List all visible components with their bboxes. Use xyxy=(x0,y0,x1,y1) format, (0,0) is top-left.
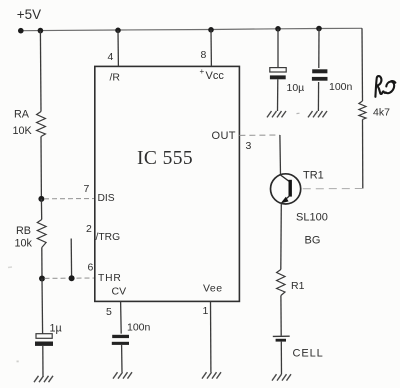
wire OUT drop to base xyxy=(279,135,282,175)
svg-text:/TRG: /TRG xyxy=(96,232,121,243)
pin Vee label xyxy=(203,283,223,295)
svg-text:DIS: DIS xyxy=(98,193,115,204)
svg-text:1: 1 xyxy=(203,305,209,317)
wire TRG stub vertical xyxy=(70,239,72,279)
wire branch down to 1u cap xyxy=(41,279,44,334)
pin 2 number xyxy=(86,223,92,235)
wire right rail down to 4k7 xyxy=(361,28,364,101)
pin 5 number xyxy=(106,306,112,318)
ground under 1u xyxy=(34,376,53,382)
scan speck near THR left xyxy=(17,361,19,363)
wire 10u to ground xyxy=(277,79,279,111)
svg-text:6: 6 xyxy=(88,262,94,274)
node junction dot TRG-THR xyxy=(69,275,75,281)
wire 4k7 down to collector xyxy=(362,120,364,189)
pin 1 number xyxy=(203,305,209,317)
wire collector horizontal xyxy=(301,188,363,190)
pin 6 number xyxy=(88,262,94,274)
wire top supply rail xyxy=(21,28,362,30)
pin THR label xyxy=(98,273,122,284)
svg-text:OUT: OUT xyxy=(212,130,236,142)
wire RB branch upper xyxy=(40,199,42,220)
node junction dot pin8 branch xyxy=(208,27,214,33)
wire RB to THR junction xyxy=(41,248,43,279)
capacitor 10u electrolytic xyxy=(270,68,304,94)
node junction dot 10u branch xyxy=(275,26,281,32)
label RD handwritten xyxy=(375,76,395,97)
ground under 10u xyxy=(267,111,286,117)
label SL100 xyxy=(296,212,328,224)
wire emitter down xyxy=(280,204,283,270)
svg-text:THR: THR xyxy=(98,273,122,284)
ground under pin1 xyxy=(202,372,221,378)
wire pin 8 xyxy=(210,30,212,67)
wire OUT dashed horizontal xyxy=(239,134,280,136)
svg-text:Vcc: Vcc xyxy=(206,70,225,82)
pin +Vcc label xyxy=(200,67,225,82)
svg-text:RB: RB xyxy=(16,225,31,237)
svg-text:RA: RA xyxy=(14,109,30,121)
svg-text:10µ: 10µ xyxy=(287,82,305,94)
wire R1 to cell xyxy=(280,296,282,336)
svg-text:2: 2 xyxy=(86,223,92,235)
svg-text:8: 8 xyxy=(201,49,207,61)
svg-text:100n: 100n xyxy=(127,322,151,334)
scan speck left margin xyxy=(8,266,12,269)
capacitor C1 1u xyxy=(35,323,62,346)
node +5V label xyxy=(17,7,41,22)
pin /R label xyxy=(110,72,121,84)
wire 100n to ground xyxy=(121,345,123,372)
node junction dot rail left end xyxy=(18,28,24,34)
pin 8 number xyxy=(201,49,207,61)
wire 100n to ground xyxy=(317,82,319,111)
ground under top 100n xyxy=(308,111,327,117)
pin CV label xyxy=(112,286,127,298)
svg-text:/R: /R xyxy=(110,72,121,84)
IC 555 label xyxy=(137,148,193,169)
svg-text:7: 7 xyxy=(84,183,90,195)
ground under cell xyxy=(272,374,291,380)
node junction dot pin4 branch xyxy=(115,28,121,34)
transistor TR1 xyxy=(271,174,301,204)
node junction dot THR-RB xyxy=(39,276,45,282)
wire THR line to pin6 xyxy=(45,277,96,279)
svg-text:10k: 10k xyxy=(15,238,33,250)
svg-text:+: + xyxy=(200,67,205,76)
wire 10u branch from rail xyxy=(277,29,279,68)
wire cell to ground xyxy=(280,342,282,375)
wire RA to DIS junction xyxy=(40,137,42,199)
capacitor 100n at CV xyxy=(112,322,151,345)
svg-text:10K: 10K xyxy=(13,125,33,137)
svg-text:CV: CV xyxy=(112,286,127,298)
svg-text:100n: 100n xyxy=(329,81,353,93)
capacitor 100n top right xyxy=(312,69,353,93)
node junction dot RA branch xyxy=(38,28,44,34)
wire pin 5 to 100n xyxy=(120,301,123,333)
svg-text:BG: BG xyxy=(305,235,321,247)
svg-text:SL100: SL100 xyxy=(296,212,328,224)
battery CELL xyxy=(273,336,324,359)
wire pin 4 xyxy=(117,30,119,66)
wire 1u to ground xyxy=(42,346,44,377)
label TR1 xyxy=(303,170,324,182)
svg-text:4k7: 4k7 xyxy=(373,107,390,119)
wire RA branch upper xyxy=(39,31,42,112)
wire pin 1 Vee to ground xyxy=(210,301,212,372)
svg-text:TR1: TR1 xyxy=(303,170,324,182)
resistor R1 xyxy=(277,270,305,296)
resistor RB xyxy=(15,220,47,250)
svg-text:4: 4 xyxy=(108,51,114,63)
ground under CV 100n xyxy=(113,372,132,378)
op IC 555 box xyxy=(95,66,240,301)
pin 3 number xyxy=(246,140,252,152)
svg-text:CELL: CELL xyxy=(293,348,324,360)
svg-text:1µ: 1µ xyxy=(50,323,62,335)
svg-text:5: 5 xyxy=(106,306,112,318)
resistor RD 4k7 xyxy=(359,101,390,120)
pin /TRG label xyxy=(96,232,121,243)
node junction dot DIS xyxy=(38,196,44,202)
svg-text:3: 3 xyxy=(246,140,252,152)
pin DIS label xyxy=(98,193,115,204)
svg-text:IC 555: IC 555 xyxy=(137,148,193,169)
label BG xyxy=(305,235,321,247)
resistor RA xyxy=(13,109,46,138)
node junction dot 100n branch xyxy=(316,26,322,32)
svg-text:Vee: Vee xyxy=(203,283,223,295)
wire DIS to pin7 xyxy=(44,198,95,200)
svg-text:R1: R1 xyxy=(291,280,305,292)
wire 100n top branch from rail xyxy=(318,29,320,69)
svg-text:+5V: +5V xyxy=(17,7,41,22)
pin OUT label xyxy=(212,130,236,142)
pin 4 number xyxy=(108,51,114,63)
pin 7 number xyxy=(84,183,90,195)
scan speck between top grounds xyxy=(297,112,300,114)
